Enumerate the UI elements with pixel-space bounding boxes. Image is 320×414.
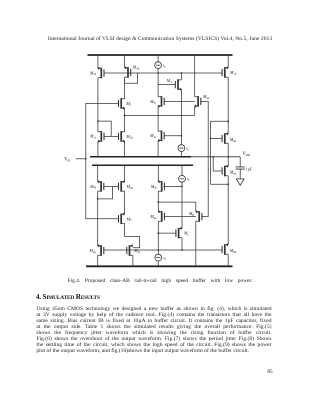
svg-text:M8b: M8b xyxy=(229,248,237,254)
wire capacitor lead bottom xyxy=(239,169,241,179)
wire M1a drain long xyxy=(227,77,229,134)
class-AB lower rail node B xyxy=(92,164,193,166)
wire Ib1 top lead xyxy=(157,55,159,62)
VDD top rail xyxy=(88,54,233,56)
wire M4 gate xyxy=(158,84,175,86)
svg-text:1pF: 1pF xyxy=(246,168,252,172)
svg-text:Ib: Ib xyxy=(186,177,190,182)
transistor M4i xyxy=(130,246,133,255)
transistor M6a xyxy=(225,134,228,143)
wire Mb1 to Mb2 gate xyxy=(104,185,119,187)
wire right gate chain xyxy=(201,101,208,216)
wire capacitor lead top xyxy=(239,157,241,167)
svg-text:M4f: M4f xyxy=(89,184,97,190)
svg-text:M4b: M4b xyxy=(132,65,140,71)
wire Ib2 to rail xyxy=(180,152,182,157)
svg-text:M1a: M1a xyxy=(229,70,237,76)
transistor M4k xyxy=(158,212,161,221)
transistor M4f xyxy=(98,182,101,191)
svg-text:M1: M1 xyxy=(125,101,131,107)
wire M4j drain down xyxy=(157,191,159,212)
svg-text:M4c: M4c xyxy=(149,99,157,105)
transistor M4j xyxy=(158,182,161,191)
svg-text:M6a: M6a xyxy=(229,137,237,143)
svg-text:Mx: Mx xyxy=(183,231,189,237)
wire M8 drain to rail xyxy=(195,221,197,266)
transistor M1a xyxy=(225,68,228,77)
current source Ib mid-top xyxy=(178,145,185,152)
wire M4c gate xyxy=(164,100,195,102)
svg-text:Ib: Ib xyxy=(185,147,189,152)
VSS bottom rail xyxy=(86,265,233,267)
wire M8b to rail xyxy=(227,254,229,266)
class-AB upper rail node A xyxy=(90,156,191,158)
junction M4e gate chain D xyxy=(181,135,183,137)
junction loop M6a gate xyxy=(210,138,212,140)
junction W1 chain B xyxy=(124,115,126,117)
transistor M6b xyxy=(225,166,228,175)
wire W2 link xyxy=(158,201,196,203)
junction Mx gate bus xyxy=(181,249,183,251)
wire M1a source xyxy=(227,55,229,68)
svg-text:M1d: M1d xyxy=(125,134,133,140)
svg-text:M4k: M4k xyxy=(149,214,157,220)
transistor M4a xyxy=(195,97,198,106)
wire Ib3 down xyxy=(181,182,183,228)
transistor M4h xyxy=(121,182,124,191)
wire M1b source xyxy=(97,55,99,68)
wire Mb2 source xyxy=(124,165,126,181)
wire M4k gate xyxy=(164,216,195,218)
wire M6b gate feedback xyxy=(213,157,222,171)
ground xyxy=(236,179,244,185)
svg-text:M4j: M4j xyxy=(150,184,157,190)
svg-text:M4g: M4g xyxy=(89,248,97,254)
wire M1b drain to M1c xyxy=(97,78,99,132)
svg-text:M4e: M4e xyxy=(149,133,157,139)
svg-text:Ib: Ib xyxy=(162,64,166,69)
transistor M8b xyxy=(225,245,228,254)
wire M5 drain box xyxy=(125,224,140,248)
wire Ib4 to rail xyxy=(157,261,159,266)
wire M6a to Vout xyxy=(227,143,229,166)
wire M4e drain to rail xyxy=(157,141,159,157)
wire Mb2 to M5 xyxy=(124,191,126,214)
wire M4j gate xyxy=(164,185,182,187)
wire M8 top lead xyxy=(195,202,197,212)
transistor M4e xyxy=(158,131,161,140)
svg-text:M5: M5 xyxy=(126,216,132,222)
wire Mb1 drain down xyxy=(97,191,99,246)
junction W2 chain Cp xyxy=(157,201,159,203)
junction chain A gate link xyxy=(97,120,99,122)
svg-text:M4: M4 xyxy=(166,78,172,84)
wire M4 source to bias xyxy=(180,73,182,80)
junction chain Ap link xyxy=(97,198,99,200)
wire M4k drain down xyxy=(157,221,159,254)
wire Mx source down xyxy=(181,238,183,250)
junction Vout feedback xyxy=(212,156,214,158)
svg-text:M4h: M4h xyxy=(126,184,134,190)
wire M4i to rail xyxy=(132,255,134,266)
svg-text:Ib: Ib xyxy=(162,256,166,261)
wire M1c to M1d gate xyxy=(104,135,118,137)
transistor M4c xyxy=(158,97,161,106)
junction W1 chain D xyxy=(181,115,183,117)
wire Ib3 top lead xyxy=(181,165,183,175)
wire M1 drain to M1d xyxy=(124,108,126,132)
wire M1c gate link xyxy=(98,121,111,136)
svg-text:Vout: Vout xyxy=(243,152,252,157)
svg-text:M1b: M1b xyxy=(89,70,97,76)
transistor M8 xyxy=(196,212,199,221)
wire M4b drain to M1 xyxy=(124,77,126,99)
wire top bias line xyxy=(105,72,222,74)
svg-text:M4i: M4i xyxy=(133,248,140,254)
wire Vout node xyxy=(191,156,240,158)
junction Mx gate chain Cp xyxy=(157,232,159,234)
transistor M5 xyxy=(121,214,124,223)
transistor Mx xyxy=(179,228,182,237)
transistor M4b xyxy=(125,68,128,77)
wire M1d drain to rail xyxy=(124,141,126,157)
current source Ib bottom xyxy=(155,254,162,261)
wire M4b source xyxy=(124,55,126,68)
wire M4g to rail xyxy=(97,255,99,266)
transistor M1b xyxy=(98,68,101,77)
wire M6a gate xyxy=(211,138,222,140)
junction gate bus chain Cp xyxy=(157,249,159,251)
transistor M4g xyxy=(98,246,101,255)
wire bottom gate bus xyxy=(103,249,221,251)
wire Vin lead xyxy=(76,158,86,160)
wire Vin vertical bus xyxy=(86,103,119,218)
wire M1c drain to rail xyxy=(97,141,99,157)
svg-text:M4a: M4a xyxy=(202,94,210,100)
wire M4c to M4e xyxy=(157,106,159,131)
junction M4 source bias line xyxy=(181,72,183,74)
transistor M1c xyxy=(98,132,101,141)
wire Mb1 source xyxy=(97,165,99,181)
junction Vin bus xyxy=(85,158,87,160)
wire folded node top xyxy=(125,114,195,116)
junction loopA top xyxy=(227,120,229,122)
wire M4b diode loop xyxy=(125,73,138,83)
wire M4e gate xyxy=(164,135,181,137)
wire M6b drain long xyxy=(227,176,229,245)
current source Ib mid-bottom xyxy=(179,175,186,182)
capacitor CL 1pF xyxy=(236,167,245,169)
junction loopA bottom xyxy=(227,183,229,185)
svg-text:M1c: M1c xyxy=(89,134,97,140)
wire Ib1 to M4c xyxy=(157,69,159,97)
transistor M4 xyxy=(178,80,181,89)
wire battery loop xyxy=(211,121,229,184)
svg-text:M6b: M6b xyxy=(229,170,237,176)
wire M4a source xyxy=(194,55,196,97)
current source Ib top xyxy=(155,62,162,69)
wire Mb1 gate link xyxy=(98,186,113,199)
junction bias line chain C xyxy=(157,72,159,74)
transistor M1d xyxy=(121,132,124,141)
wire M4a drain xyxy=(194,106,196,115)
junction Vout node xyxy=(227,156,229,158)
wire Mx gate xyxy=(158,232,176,234)
wire M4j source xyxy=(157,165,159,181)
junction M4j gate chain Dp xyxy=(181,186,183,188)
wire M4 drain to Ib2 xyxy=(180,89,182,144)
transistor M1 xyxy=(121,99,124,108)
svg-text:Vin: Vin xyxy=(64,158,70,163)
